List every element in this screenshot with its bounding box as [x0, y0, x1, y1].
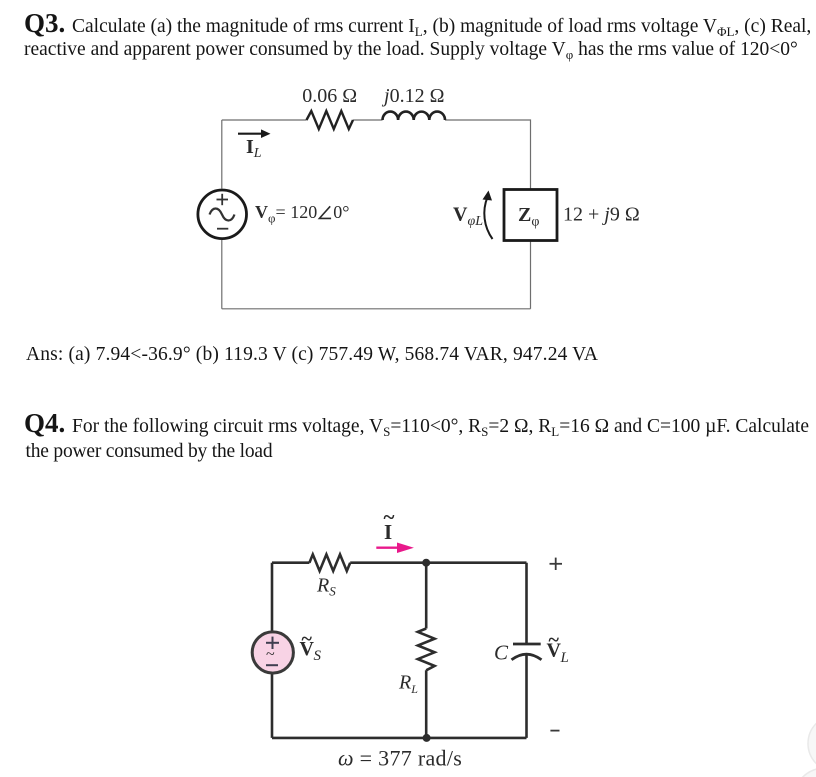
Ans line [26, 343, 598, 366]
svg-text:~: ~ [549, 629, 560, 651]
wire: left vertical from top corner to source [271, 563, 274, 632]
resistor 0.06 ohm zigzag [307, 111, 354, 129]
svg-text:IL: IL [246, 136, 262, 161]
ac source Vs circle (pink) [252, 632, 293, 673]
wire: bottom horizontal [272, 737, 527, 740]
svg-text:0.06 Ω: 0.06 Ω [302, 85, 357, 107]
polarity minus (bottom right) [550, 730, 559, 732]
source sine wave [210, 209, 235, 221]
angle symbol [319, 206, 331, 218]
wire: capacitor to bottom-right corner [525, 655, 528, 738]
svg-text:=: = [276, 202, 286, 222]
svg-text:~: ~ [384, 505, 395, 529]
svg-text:~: ~ [302, 628, 313, 650]
svg-text:12 + j9 Ω: 12 + j9 Ω [563, 204, 640, 226]
ac source Vphi circle [198, 190, 247, 239]
svg-text:ω = 377 rad/s: ω = 377 rad/s [338, 746, 462, 771]
load voltage arc arrow [484, 197, 492, 239]
decorative corner button [808, 715, 816, 772]
Q4 heading + problem text line 1 [24, 414, 809, 439]
svg-text:RS: RS [316, 575, 336, 599]
wire: top segment from left corner to resistor [222, 119, 307, 121]
Q4 problem text line 2 [26, 439, 273, 464]
Q3 heading + problem text line 1 [24, 15, 811, 38]
source minus sign [217, 228, 228, 230]
wire: middle branch bottom [425, 670, 428, 738]
polarity plus (top right) [550, 558, 563, 570]
inductor j0.12 ohm humps [383, 112, 446, 120]
wire: source to bottom-left corner [271, 674, 274, 738]
wire: inductor to top-right corner and right vertical down to load box [445, 120, 531, 189]
wire: left vertical, top wire to source [221, 120, 223, 189]
capacitor C curved plate [512, 654, 542, 660]
svg-text:j0.12 Ω: j0.12 Ω [381, 85, 444, 107]
current arrow IL [238, 129, 271, 138]
Q3 problem text line 2 [24, 38, 798, 61]
node: top junction dot [422, 559, 430, 567]
svg-text:RL: RL [398, 672, 418, 697]
source plus sign [217, 194, 229, 205]
svg-text:VφL: VφL [453, 204, 483, 230]
wire: source bottom to bottom-left corner [221, 240, 223, 309]
wire: middle branch top [425, 563, 428, 629]
wire: resistor Rs to top-right corner [350, 561, 526, 564]
resistor Rs zigzag [309, 554, 350, 571]
capacitor C top plate [513, 643, 541, 646]
svg-text:0°: 0° [333, 202, 349, 222]
svg-text:~: ~ [266, 646, 275, 663]
svg-text:Vφ: Vφ [255, 202, 276, 226]
source plus [266, 637, 279, 649]
resistor RL vertical zigzag [418, 629, 435, 671]
wire: top-left corner to resistor Rs [272, 561, 309, 564]
svg-text:C: C [494, 641, 509, 665]
load box Zphi [504, 190, 557, 241]
svg-text:120: 120 [290, 202, 317, 222]
source minus [266, 664, 278, 666]
wire: load box bottom to bottom-right corner [530, 241, 532, 309]
wire: right vertical to capacitor [525, 563, 528, 644]
wire: bottom horizontal [222, 308, 531, 310]
wire: between resistor and inductor [353, 119, 383, 121]
node: bottom junction dot [423, 734, 431, 742]
current arrow (magenta) [376, 543, 414, 554]
